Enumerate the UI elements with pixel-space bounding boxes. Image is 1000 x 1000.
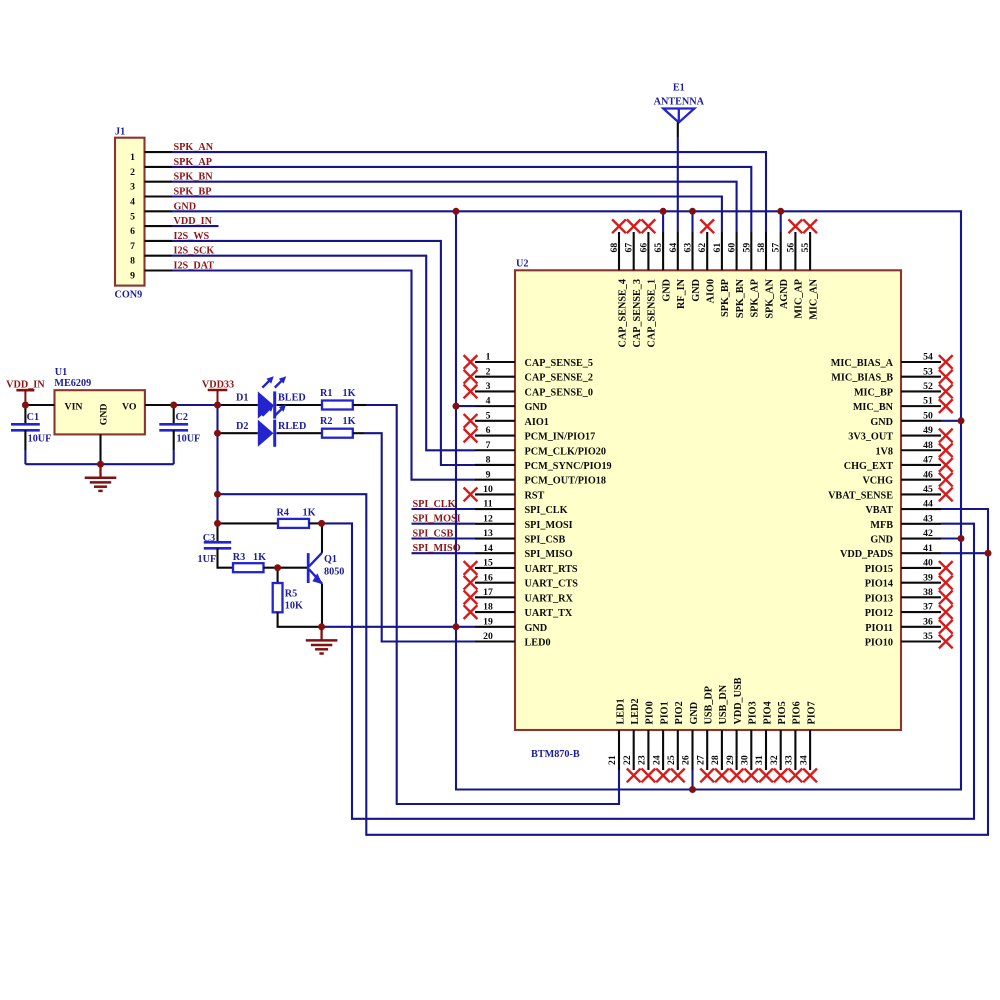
svg-text:BTM870-B: BTM870-B xyxy=(531,749,580,760)
svg-text:10UF: 10UF xyxy=(177,434,201,445)
svg-text:4: 4 xyxy=(130,197,135,208)
svg-text:USB_DP: USB_DP xyxy=(704,686,715,725)
svg-text:PIO10: PIO10 xyxy=(865,637,893,648)
svg-text:38: 38 xyxy=(923,587,933,598)
svg-text:22: 22 xyxy=(622,755,633,765)
svg-text:5: 5 xyxy=(130,211,135,222)
svg-text:UART_RTS: UART_RTS xyxy=(525,564,578,575)
svg-text:VDD_PADS: VDD_PADS xyxy=(840,549,893,560)
svg-text:USB_DN: USB_DN xyxy=(718,684,729,724)
svg-text:MIC_BIAS_A: MIC_BIAS_A xyxy=(831,358,894,369)
svg-text:SPK_AN: SPK_AN xyxy=(764,278,775,318)
svg-text:18: 18 xyxy=(483,602,493,613)
svg-text:VBAT: VBAT xyxy=(865,505,893,516)
svg-text:UART_CTS: UART_CTS xyxy=(525,579,579,590)
svg-text:9: 9 xyxy=(130,271,135,282)
svg-text:10: 10 xyxy=(483,484,493,495)
svg-text:60: 60 xyxy=(727,243,738,253)
svg-text:42: 42 xyxy=(923,528,933,539)
svg-text:19: 19 xyxy=(483,616,493,627)
svg-text:PIO1: PIO1 xyxy=(659,701,670,724)
svg-text:R5: R5 xyxy=(285,589,297,600)
svg-text:30: 30 xyxy=(740,755,751,765)
svg-text:GND: GND xyxy=(661,279,672,302)
svg-text:57: 57 xyxy=(771,243,782,253)
svg-text:SPI_CSB: SPI_CSB xyxy=(413,529,454,540)
svg-text:64: 64 xyxy=(668,243,679,253)
svg-text:R1: R1 xyxy=(320,388,332,399)
svg-text:RST: RST xyxy=(525,490,545,501)
svg-text:10UF: 10UF xyxy=(28,434,52,445)
svg-text:R3: R3 xyxy=(233,552,245,563)
svg-text:1UF: 1UF xyxy=(198,554,217,565)
svg-text:58: 58 xyxy=(756,243,767,253)
svg-text:MIC_AN: MIC_AN xyxy=(808,278,819,319)
svg-text:1K: 1K xyxy=(303,507,316,518)
svg-text:39: 39 xyxy=(923,572,933,583)
svg-text:8: 8 xyxy=(486,455,491,466)
svg-text:C3: C3 xyxy=(203,533,215,544)
svg-text:PIO3: PIO3 xyxy=(748,701,759,724)
svg-text:GND: GND xyxy=(870,535,893,546)
svg-text:CON9: CON9 xyxy=(115,290,143,301)
svg-text:CAP_SENSE_2: CAP_SENSE_2 xyxy=(525,373,594,384)
svg-text:PCM_IN/PIO17: PCM_IN/PIO17 xyxy=(525,432,596,443)
svg-text:PIO4: PIO4 xyxy=(762,701,773,724)
svg-text:17: 17 xyxy=(483,587,493,598)
svg-text:55: 55 xyxy=(800,243,811,253)
svg-text:8: 8 xyxy=(130,256,135,267)
svg-text:4: 4 xyxy=(486,396,491,407)
svg-text:AIO0: AIO0 xyxy=(706,279,717,303)
svg-text:1K: 1K xyxy=(343,416,356,427)
svg-text:BLED: BLED xyxy=(278,393,306,404)
svg-text:R2: R2 xyxy=(320,416,332,427)
svg-text:GND: GND xyxy=(525,623,548,634)
svg-text:47: 47 xyxy=(923,455,933,466)
svg-text:1V8: 1V8 xyxy=(875,446,893,457)
svg-text:21: 21 xyxy=(607,755,618,765)
svg-text:9: 9 xyxy=(486,469,491,480)
svg-text:MIC_AP: MIC_AP xyxy=(794,279,805,319)
svg-text:GND: GND xyxy=(99,404,110,426)
svg-text:34: 34 xyxy=(798,755,809,765)
svg-text:SPK_BN: SPK_BN xyxy=(735,278,746,318)
svg-text:65: 65 xyxy=(653,243,664,253)
svg-text:62: 62 xyxy=(697,243,708,253)
svg-text:LED1: LED1 xyxy=(615,698,626,724)
svg-text:E1: E1 xyxy=(673,83,685,94)
svg-text:45: 45 xyxy=(923,484,933,495)
svg-text:PCM_CLK/PIO20: PCM_CLK/PIO20 xyxy=(525,446,607,457)
svg-text:VCHG: VCHG xyxy=(862,476,893,487)
svg-text:LED0: LED0 xyxy=(525,637,551,648)
svg-text:20: 20 xyxy=(483,631,493,642)
svg-text:PIO7: PIO7 xyxy=(806,701,817,724)
svg-text:CAP_SENSE_3: CAP_SENSE_3 xyxy=(632,279,643,348)
svg-text:GND: GND xyxy=(691,279,702,302)
svg-text:R4: R4 xyxy=(277,507,289,518)
svg-text:UART_TX: UART_TX xyxy=(525,608,573,619)
svg-text:GND: GND xyxy=(689,702,700,725)
svg-text:D2: D2 xyxy=(236,421,248,432)
svg-text:14: 14 xyxy=(483,543,493,554)
svg-text:61: 61 xyxy=(712,243,723,253)
svg-text:MIC_BP: MIC_BP xyxy=(854,387,893,398)
svg-text:25: 25 xyxy=(666,755,677,765)
svg-text:51: 51 xyxy=(923,396,933,407)
svg-text:SPI_MOSI: SPI_MOSI xyxy=(525,520,573,531)
svg-text:D1: D1 xyxy=(236,393,248,404)
svg-text:PIO5: PIO5 xyxy=(777,701,788,724)
svg-text:36: 36 xyxy=(923,616,933,627)
svg-text:VO: VO xyxy=(122,401,137,412)
svg-text:AIO1: AIO1 xyxy=(525,417,549,428)
svg-text:63: 63 xyxy=(683,243,694,253)
svg-text:SPI_MISO: SPI_MISO xyxy=(525,549,573,560)
svg-text:PIO6: PIO6 xyxy=(792,701,803,724)
svg-text:16: 16 xyxy=(483,572,493,583)
svg-text:PIO15: PIO15 xyxy=(865,564,893,575)
svg-text:53: 53 xyxy=(923,366,933,377)
svg-text:PIO11: PIO11 xyxy=(865,623,893,634)
svg-text:GND: GND xyxy=(870,417,893,428)
svg-text:49: 49 xyxy=(923,425,933,436)
svg-text:SPK_AP: SPK_AP xyxy=(750,279,761,318)
svg-text:J1: J1 xyxy=(115,127,125,138)
svg-text:7: 7 xyxy=(486,440,491,451)
svg-text:26: 26 xyxy=(681,755,692,765)
svg-text:1: 1 xyxy=(130,152,135,163)
svg-text:1: 1 xyxy=(486,352,491,363)
svg-text:AGND: AGND xyxy=(779,279,790,309)
svg-text:59: 59 xyxy=(741,243,752,253)
svg-text:32: 32 xyxy=(769,755,780,765)
svg-text:SPK_BP: SPK_BP xyxy=(720,279,731,317)
svg-text:ANTENNA: ANTENNA xyxy=(654,97,705,108)
svg-text:10K: 10K xyxy=(285,601,303,612)
svg-text:SPI_MOSI: SPI_MOSI xyxy=(413,514,461,525)
svg-text:PIO13: PIO13 xyxy=(865,593,893,604)
svg-text:SPI_CSB: SPI_CSB xyxy=(525,535,566,546)
svg-text:CAP_SENSE_0: CAP_SENSE_0 xyxy=(525,387,594,398)
svg-text:PIO12: PIO12 xyxy=(865,608,893,619)
svg-text:2: 2 xyxy=(130,167,135,178)
svg-text:C1: C1 xyxy=(27,412,39,423)
svg-text:40: 40 xyxy=(923,558,933,569)
svg-text:VDD_IN: VDD_IN xyxy=(6,380,45,391)
svg-text:54: 54 xyxy=(923,352,933,363)
svg-text:UART_RX: UART_RX xyxy=(525,593,574,604)
svg-text:3: 3 xyxy=(130,182,135,193)
svg-text:27: 27 xyxy=(695,755,706,765)
svg-text:CAP_SENSE_1: CAP_SENSE_1 xyxy=(647,279,658,348)
svg-text:U2: U2 xyxy=(516,259,528,270)
svg-text:8050: 8050 xyxy=(324,567,344,578)
svg-text:7: 7 xyxy=(130,241,135,252)
svg-text:CAP_SENSE_4: CAP_SENSE_4 xyxy=(617,279,628,348)
svg-text:37: 37 xyxy=(923,602,933,613)
svg-text:MIC_BN: MIC_BN xyxy=(853,402,894,413)
svg-text:ME6209: ME6209 xyxy=(54,378,91,389)
svg-text:LED2: LED2 xyxy=(630,698,641,724)
svg-text:12: 12 xyxy=(483,513,493,524)
svg-text:52: 52 xyxy=(923,381,933,392)
svg-text:23: 23 xyxy=(637,755,648,765)
svg-text:MIC_BIAS_B: MIC_BIAS_B xyxy=(831,373,893,384)
svg-text:GND: GND xyxy=(525,402,548,413)
svg-text:13: 13 xyxy=(483,528,493,539)
svg-text:28: 28 xyxy=(710,755,721,765)
svg-text:48: 48 xyxy=(923,440,933,451)
svg-text:11: 11 xyxy=(483,499,492,510)
svg-text:CAP_SENSE_5: CAP_SENSE_5 xyxy=(525,358,594,369)
svg-text:15: 15 xyxy=(483,558,493,569)
svg-text:VIN: VIN xyxy=(65,401,83,412)
svg-text:SPI_CLK: SPI_CLK xyxy=(525,505,568,516)
svg-text:6: 6 xyxy=(486,425,491,436)
svg-text:U1: U1 xyxy=(55,367,67,378)
svg-text:5: 5 xyxy=(486,410,491,421)
svg-text:33: 33 xyxy=(784,755,795,765)
svg-text:PIO14: PIO14 xyxy=(865,579,893,590)
svg-text:29: 29 xyxy=(725,755,736,765)
svg-text:3V3_OUT: 3V3_OUT xyxy=(848,432,893,443)
svg-text:CHG_EXT: CHG_EXT xyxy=(844,461,893,472)
svg-text:41: 41 xyxy=(923,543,933,554)
svg-text:SPI_CLK: SPI_CLK xyxy=(413,499,456,510)
svg-text:1K: 1K xyxy=(253,552,266,563)
svg-text:C2: C2 xyxy=(176,412,188,423)
svg-text:1K: 1K xyxy=(343,388,356,399)
svg-text:6: 6 xyxy=(130,226,135,237)
svg-text:46: 46 xyxy=(923,469,933,480)
svg-text:68: 68 xyxy=(609,243,620,253)
svg-text:PCM_OUT/PIO18: PCM_OUT/PIO18 xyxy=(525,476,607,487)
svg-text:2: 2 xyxy=(486,366,491,377)
svg-text:VDD_USB: VDD_USB xyxy=(733,677,744,724)
svg-text:MFB: MFB xyxy=(870,520,893,531)
svg-text:PCM_SYNC/PIO19: PCM_SYNC/PIO19 xyxy=(525,461,612,472)
svg-text:56: 56 xyxy=(785,243,796,253)
svg-text:35: 35 xyxy=(923,631,933,642)
svg-text:44: 44 xyxy=(923,499,933,510)
svg-text:RF_IN: RF_IN xyxy=(676,278,687,309)
svg-text:67: 67 xyxy=(624,243,635,253)
svg-text:24: 24 xyxy=(651,755,662,765)
svg-text:66: 66 xyxy=(638,243,649,253)
svg-text:Q1: Q1 xyxy=(324,554,337,565)
svg-text:PIO0: PIO0 xyxy=(645,701,656,724)
svg-text:VDD33: VDD33 xyxy=(202,380,234,391)
svg-text:3: 3 xyxy=(486,381,491,392)
svg-text:VBAT_SENSE: VBAT_SENSE xyxy=(828,490,893,501)
svg-text:31: 31 xyxy=(754,755,765,765)
svg-text:RLED: RLED xyxy=(278,421,306,432)
svg-text:SPI_MISO: SPI_MISO xyxy=(413,543,461,554)
svg-text:PIO2: PIO2 xyxy=(674,701,685,724)
svg-text:43: 43 xyxy=(923,513,933,524)
svg-text:50: 50 xyxy=(923,410,933,421)
